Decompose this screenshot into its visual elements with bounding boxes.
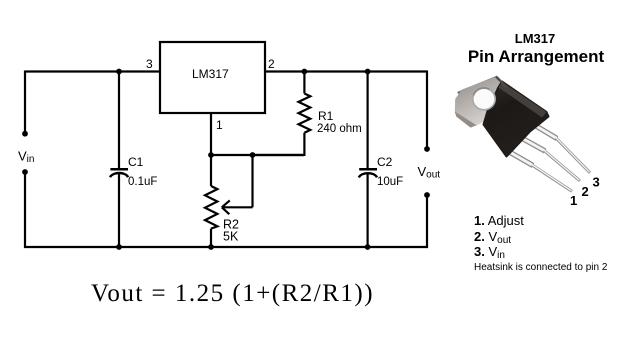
node Vin top terminal — [22, 131, 28, 137]
svg-text:1: 1 — [216, 118, 223, 132]
regulator U1 LM317 box — [160, 42, 265, 113]
tab lower shadow — [455, 112, 477, 128]
node C2 bottom junction — [365, 244, 371, 250]
transistor body — [484, 82, 549, 157]
wire left input drop upper — [24, 71, 26, 134]
svg-text:LM317: LM317 — [192, 67, 229, 81]
svg-text:Pin Arrangement: Pin Arrangement — [468, 47, 605, 66]
svg-text:3: 3 — [593, 175, 600, 190]
capacitor C2 — [359, 71, 403, 249]
node C2 top junction — [365, 69, 371, 75]
wire pin1 drop — [210, 113, 212, 155]
resistor R2 potentiometer — [205, 155, 239, 248]
wire right output drop lower — [426, 195, 428, 248]
svg-text:2: 2 — [582, 184, 589, 199]
svg-text:Vout: Vout — [418, 164, 441, 181]
transistor package TO-220 photo — [455, 76, 590, 191]
node adjust junction — [208, 152, 214, 158]
tab hole — [473, 88, 495, 110]
wire left input drop lower — [24, 172, 26, 248]
svg-text:1: 1 — [570, 193, 577, 208]
tab bevel — [457, 76, 500, 97]
wire right output drop upper — [426, 71, 428, 150]
node R1 top junction — [302, 69, 308, 75]
node C1 top junction — [116, 69, 122, 75]
svg-text:3. Vin: 3. Vin — [474, 244, 505, 261]
node wiper junction — [250, 152, 256, 158]
svg-text:1. Adjust: 1. Adjust — [474, 213, 524, 228]
svg-text:10uF: 10uF — [377, 176, 403, 188]
wire bottom rail — [24, 246, 428, 248]
node Vout bottom terminal — [424, 192, 430, 198]
svg-text:3: 3 — [146, 57, 153, 71]
body top bevel highlight — [499, 82, 547, 118]
svg-text:C2: C2 — [377, 155, 393, 169]
node C1 bottom junction — [116, 244, 122, 250]
node Vin bottom terminal — [22, 169, 28, 175]
wire top rail right segment — [265, 70, 428, 72]
svg-text:Vout = 1.25 (1+(R2/R1)): Vout = 1.25 (1+(R2/R1)) — [91, 280, 374, 307]
svg-text:240 ohm: 240 ohm — [317, 123, 362, 135]
tab fold seam — [496, 77, 507, 88]
svg-text:0.1uF: 0.1uF — [128, 176, 157, 188]
resistor R1 — [252, 71, 362, 157]
wire wiper connection — [222, 155, 253, 214]
svg-text:5K: 5K — [223, 230, 239, 244]
svg-text:Heatsink is connected to pin 2: Heatsink is connected to pin 2 — [474, 262, 608, 273]
node Vout top terminal — [424, 146, 430, 152]
capacitor C1 — [110, 71, 157, 249]
wire adjust horizontal — [211, 154, 304, 156]
svg-text:LM317: LM317 — [515, 31, 555, 46]
svg-text:2: 2 — [268, 57, 275, 71]
leg 2 — [518, 136, 580, 181]
tab face — [455, 77, 504, 127]
svg-text:R1: R1 — [318, 109, 334, 123]
leg 1 — [506, 150, 572, 191]
svg-text:C1: C1 — [128, 155, 144, 169]
leg 3 — [531, 123, 590, 173]
svg-text:Vin: Vin — [18, 149, 34, 166]
node R2 bottom junction — [208, 244, 214, 250]
wire top rail left segment — [25, 70, 160, 72]
